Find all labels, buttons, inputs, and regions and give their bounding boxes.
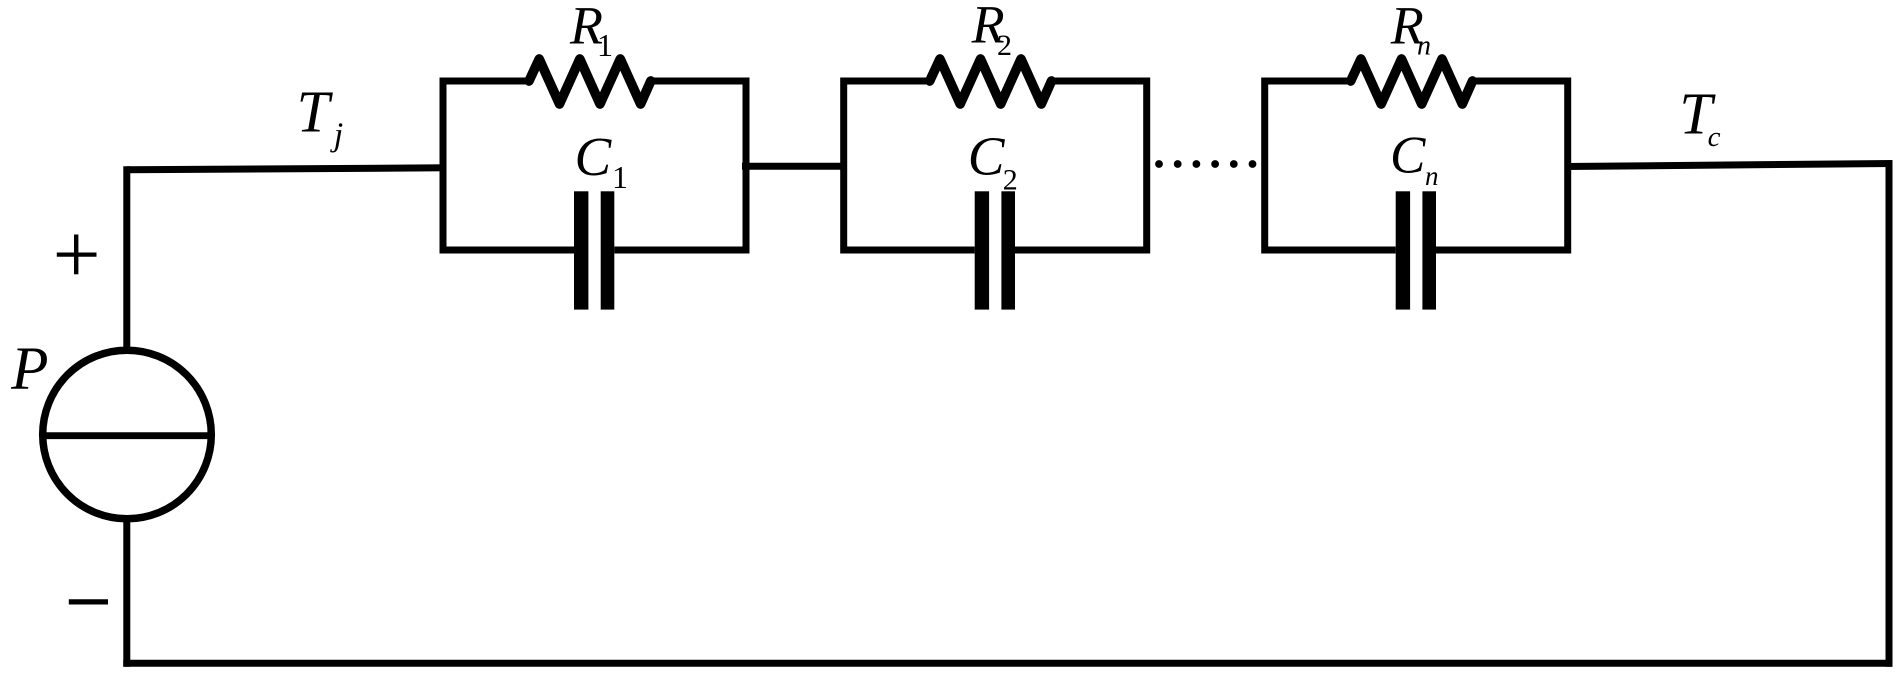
wire bottom rail [123,660,1892,667]
wire Tj (top-left horizontal from source to block 1) [127,168,446,170]
RC block 2 frame wires [844,81,1147,250]
label C2 [968,125,1018,196]
svg-text:1: 1 [612,159,628,195]
label Cn [1390,127,1439,192]
wire left vertical (plus lead from Tj corner down to source top) [123,166,130,352]
svg-text:P: P [10,336,48,403]
label P [10,336,48,403]
wire right vertical (Tc lead down to bottom rail) [1886,161,1893,667]
label Tc (node Tc) [1679,81,1720,153]
svg-text:c: c [1708,121,1721,153]
dots continuation between block 2 and block n [1155,160,1256,168]
label R1 [569,0,613,63]
capacitor C1 [574,191,614,309]
wire left vertical (minus lead from source bottom to bottom rail) [123,516,130,667]
svg-text:j: j [330,117,343,154]
wire Tc (top-right horizontal from block n to right rail) [1566,164,1892,167]
label Rn [1390,0,1431,62]
plus terminal [57,235,97,275]
svg-text:C: C [968,125,1006,186]
RC block 1 frame wires [443,81,746,250]
minus terminal [69,599,108,604]
wire between block 1 and block 2 [742,163,847,170]
svg-text:2: 2 [1003,164,1018,197]
current source P (circle with center bar) [43,350,212,519]
label R2 [971,0,1012,62]
svg-text:1: 1 [597,27,613,63]
capacitor Cn [1396,191,1436,309]
svg-text:C: C [1390,127,1426,185]
svg-text:n: n [1417,31,1431,62]
svg-text:T: T [297,79,334,145]
label C1 [575,126,629,195]
RC block n frame wires [1265,81,1568,250]
capacitor C2 [975,191,1015,309]
svg-text:C: C [575,126,613,187]
svg-text:n: n [1425,161,1439,191]
resistor Rn [1351,59,1473,104]
label Tj (node Tj) [297,79,344,154]
resistor R1 [529,59,651,104]
resistor R2 [930,59,1052,104]
svg-text:2: 2 [997,29,1012,62]
